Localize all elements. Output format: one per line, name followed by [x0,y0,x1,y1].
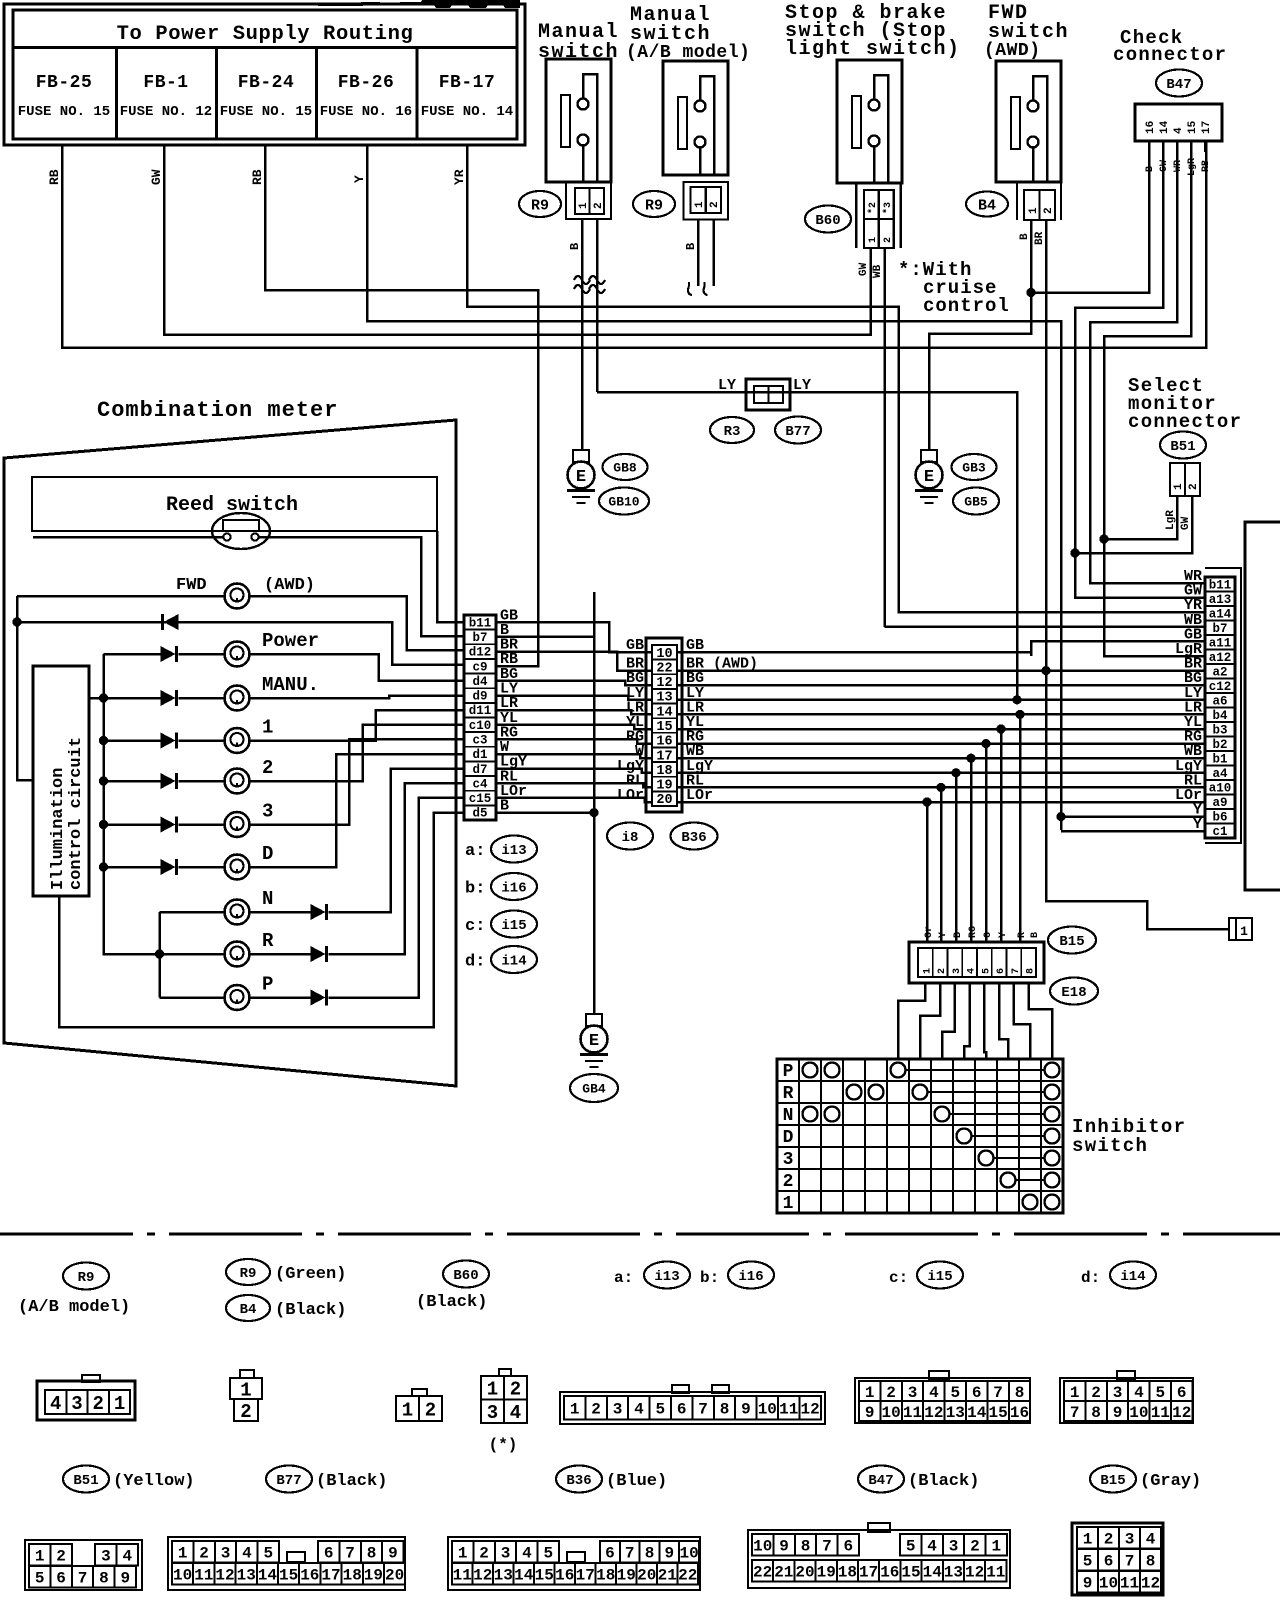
connector R9 AB pinout [396,1396,419,1421]
wire LgY row [677,772,1205,775]
svg-text:d:: d: [465,953,485,972]
wire manual switch pin1 to ground GB8 [581,219,584,450]
svg-text:17: 17 [656,749,672,764]
svg-text:4: 4 [1146,1531,1156,1549]
wire tap RL to E18 [936,783,945,792]
svg-text:i8: i8 [622,830,639,846]
TCU bracket [1245,522,1280,890]
svg-text:18: 18 [838,1564,857,1582]
svg-text:WR: WR [1173,160,1184,172]
svg-text:6: 6 [1104,1553,1114,1571]
svg-text:2: 2 [886,1384,896,1402]
svg-text:2: 2 [591,1401,601,1419]
inhibitor common contact [1045,1195,1060,1210]
wire GB strip to B36 [496,622,652,652]
ground GB8 GB10 [573,450,589,462]
wire check WR [1090,141,1205,583]
svg-text:15: 15 [656,720,672,735]
svg-text:4: 4 [50,1393,61,1415]
svg-text:(Green): (Green) [275,1265,346,1284]
wire check LgR [1104,141,1205,656]
wire GB row [677,641,1205,652]
svg-text:a10: a10 [1209,781,1232,795]
svg-text:11: 11 [986,1564,1005,1582]
wire check RB tail [1204,141,1207,152]
svg-text:a11: a11 [1209,636,1232,650]
wire manual switch pin2 LY [596,219,599,392]
svg-text:19: 19 [364,1567,383,1585]
oval E18 [1050,978,1098,1005]
svg-text:11: 11 [903,1404,922,1422]
svg-text:i14: i14 [1120,1269,1145,1285]
wire tap LOr to E18 [922,797,931,806]
svg-text:12: 12 [1141,1575,1160,1593]
joint connector box [746,379,790,410]
svg-text:1: 1 [922,968,933,974]
wire Y row b6 [1061,815,1205,818]
svg-text:2: 2 [1104,1531,1114,1549]
svg-text:1: 1 [458,1545,468,1563]
wire tap RG to E18 [981,739,990,748]
inhibitor moving contact [979,1151,994,1166]
wire illumination feed [89,697,104,700]
svg-text:21: 21 [658,1567,677,1585]
diode R [311,946,326,962]
svg-text:N: N [262,888,273,910]
illumination control circuit [33,666,89,896]
svg-text:14: 14 [656,705,672,720]
wire RG row [677,742,1205,745]
svg-text:i14: i14 [501,954,526,970]
svg-text:switch: switch [1072,1135,1148,1157]
inhibitor switch grid [777,1059,1063,1213]
svg-text:GW: GW [149,169,164,185]
svg-text:20: 20 [385,1567,404,1585]
svg-text:2: 2 [937,968,948,974]
svg-text:5: 5 [1155,1384,1165,1402]
svg-text:B77: B77 [785,424,810,440]
svg-text:LY: LY [718,377,736,394]
svg-text:22: 22 [753,1564,772,1582]
svg-text:a9: a9 [1212,796,1227,810]
svg-text:R: R [262,930,274,952]
svg-text:21: 21 [774,1564,793,1582]
check connector B47 box [1135,104,1222,141]
connector B15 E18 [909,942,1044,983]
svg-text:1: 1 [694,201,706,208]
wire BR row [677,669,1205,672]
svg-text:1: 1 [578,202,590,209]
svg-text:7: 7 [625,1545,635,1563]
oval R9 [519,191,561,217]
svg-text:7: 7 [993,1384,1003,1402]
inhibitor common contact [1045,1063,1060,1078]
svg-text:1: 1 [1240,924,1248,939]
svg-text:2: 2 [1188,483,1200,490]
svg-text:light switch): light switch) [785,38,961,61]
svg-text:13: 13 [656,691,672,706]
svg-text:1: 1 [865,1384,875,1402]
oval B51 yellow [63,1466,109,1493]
svg-text:10: 10 [679,1545,698,1563]
svg-text:i15: i15 [927,1269,952,1285]
svg-text:3: 3 [1113,1384,1123,1402]
svg-text:a13: a13 [1209,593,1232,607]
oval i8 [607,823,653,850]
svg-text:FB-24: FB-24 [238,73,295,93]
oval B51 [1160,432,1206,459]
svg-text:RG: RG [968,926,979,938]
svg-text:B60: B60 [815,213,840,229]
svg-text:i15: i15 [501,918,526,934]
svg-text:(Black): (Black) [908,1472,979,1491]
oval B36 blue [556,1466,602,1493]
svg-text:FUSE NO. 12: FUSE NO. 12 [120,104,212,120]
svg-text:6: 6 [324,1545,334,1563]
inhibitor contact [803,1063,818,1078]
svg-text:i16: i16 [501,881,526,897]
wire GB tap to E18 [1030,641,1033,656]
wire W strip to B36 [496,754,652,758]
svg-text:b4: b4 [1212,709,1228,723]
svg-text:1: 1 [487,1379,498,1401]
svg-text:GB8: GB8 [613,461,637,476]
svg-text:1: 1 [1028,207,1040,214]
svg-text:GW: GW [1159,160,1170,172]
wire AWD diode row [17,596,32,780]
diode AWD [164,614,179,630]
oval B15 gray [1090,1466,1136,1493]
svg-text:connector: connector [1128,411,1242,433]
svg-text:5: 5 [906,1538,916,1556]
svg-text:FUSE NO. 14: FUSE NO. 14 [421,104,513,120]
oval R9 green [226,1259,270,1285]
connector B51 box [1170,463,1200,496]
oval R3 [710,417,754,443]
wire BR strip to B36 [496,652,652,671]
svg-text:MANU.: MANU. [262,674,319,696]
svg-text:4: 4 [242,1545,252,1563]
svg-text:E: E [576,468,586,487]
svg-text:c15: c15 [469,792,492,806]
wire FWD lamp [17,595,224,598]
svg-text:WB: WB [872,264,884,278]
svg-text:7: 7 [78,1570,88,1588]
svg-text:15: 15 [901,1564,920,1582]
connector B36 pinout 22 [448,1537,700,1590]
svg-text:10: 10 [753,1538,772,1556]
svg-text:12: 12 [1172,1404,1191,1422]
svg-text:LgR: LgR [1187,158,1198,176]
wire meter B row14 [496,811,594,814]
svg-text:a12: a12 [1209,651,1232,665]
inhibitor moving contact [935,1107,950,1122]
svg-text:*3: *3 [882,202,894,214]
svg-text:14: 14 [258,1567,278,1585]
svg-text:5: 5 [950,1384,960,1402]
svg-text:E: E [924,468,934,487]
svg-text:2: 2 [883,237,894,243]
svg-text:10: 10 [881,1404,900,1422]
svg-text:P: P [262,974,273,996]
wire RG strip to B36 [496,739,652,743]
svg-text:R9: R9 [240,1266,257,1282]
svg-text:13: 13 [946,1404,965,1422]
svg-text:(Yellow): (Yellow) [113,1472,195,1491]
svg-text:6: 6 [996,968,1007,974]
svg-text:c9: c9 [472,660,487,674]
svg-text:B: B [568,243,582,250]
svg-text:(A/B model): (A/B model) [18,1298,130,1317]
connector B36 strip [646,638,682,812]
svg-text:16: 16 [880,1564,899,1582]
svg-text:Y: Y [938,932,949,938]
svg-text:B4: B4 [240,1302,257,1318]
svg-text:3: 3 [1125,1531,1135,1549]
svg-text:4: 4 [510,1402,521,1424]
svg-text:4: 4 [927,1538,937,1556]
svg-text:b2: b2 [1212,738,1227,752]
svg-text:i13: i13 [501,843,526,859]
connector R9 manual switch [566,182,611,219]
svg-text:1: 1 [114,1393,125,1415]
svg-text:1: 1 [991,1538,1001,1556]
svg-text:12: 12 [473,1567,492,1585]
svg-text:RB: RB [1201,160,1212,172]
svg-text:GB: GB [626,637,644,654]
svg-text:11: 11 [779,1401,798,1419]
svg-text:8: 8 [1091,1404,1101,1422]
connector B4 [1016,183,1018,220]
svg-text:7: 7 [822,1538,832,1556]
connector B51 pinout [25,1540,142,1590]
svg-text:FUSE NO. 15: FUSE NO. 15 [18,104,110,120]
svg-text:4: 4 [967,968,978,974]
svg-text:B47: B47 [1166,77,1191,93]
wire reed box edge to strip [437,531,464,622]
svg-text:(AWD): (AWD) [264,576,315,595]
svg-text:B: B [1019,233,1031,240]
svg-text:Or: Or [924,926,935,938]
connector B77 pinout 12 [560,1392,825,1424]
svg-text:10: 10 [758,1401,777,1419]
ground GB3 GB5 [921,450,937,462]
connector B60 pinout [481,1376,504,1400]
svg-text:11: 11 [194,1567,213,1585]
svg-text:18: 18 [656,764,672,779]
svg-text:3: 3 [101,1548,111,1566]
wire FWD pin1 B to ground [929,220,1031,450]
wire E18 to inhibitor [964,983,970,1059]
svg-text:b7: b7 [472,631,487,645]
svg-text:2: 2 [56,1548,66,1566]
svg-text:LOr: LOr [617,787,644,804]
oval B47 black [858,1466,904,1493]
svg-text:16: 16 [1145,121,1157,134]
svg-text:c12: c12 [1209,680,1232,694]
svg-text:R: R [1017,932,1028,938]
wire E18 to inhibitor [942,983,955,1059]
svg-text:9: 9 [388,1545,398,1563]
svg-text:8: 8 [99,1570,109,1588]
svg-text:9: 9 [865,1404,875,1422]
svg-text:2: 2 [425,1399,436,1421]
svg-text:17: 17 [859,1564,878,1582]
svg-text:Power: Power [262,630,319,652]
inhibitor contact [869,1085,884,1100]
svg-text:8: 8 [1015,1384,1025,1402]
svg-text:4: 4 [122,1548,132,1566]
diode P [311,990,326,1006]
svg-text:GB4: GB4 [582,1082,606,1097]
svg-text:3: 3 [949,1538,959,1556]
diode N [311,904,326,920]
svg-text:b:: b: [700,1269,719,1287]
wire Y from FB-26 [367,145,1061,830]
svg-text:22: 22 [678,1567,697,1585]
svg-text:i13: i13 [654,1269,679,1285]
svg-text:B: B [1030,932,1041,938]
svg-text:7: 7 [698,1401,708,1419]
svg-text:9: 9 [741,1401,751,1419]
svg-text:B: B [953,932,964,938]
wire A/B pin2 cut [712,220,715,287]
svg-text:i16: i16 [738,1269,763,1285]
svg-text:7: 7 [345,1545,355,1563]
oval R9 AB model [63,1263,109,1290]
oval B60 black [443,1261,489,1288]
wire BG row [677,684,1205,687]
svg-text:5: 5 [1083,1553,1093,1571]
svg-text:6: 6 [1177,1384,1187,1402]
svg-text:1: 1 [1083,1531,1093,1549]
wire BG strip to B36 [496,681,652,685]
svg-text:14: 14 [1159,120,1171,134]
svg-text:c3: c3 [472,733,487,747]
svg-text:(Black): (Black) [316,1472,387,1491]
svg-text:15: 15 [1187,120,1199,134]
svg-text:FB-1: FB-1 [143,73,188,93]
connector B60 [855,183,857,248]
svg-text:GW: GW [858,262,870,276]
oval B60 [805,206,851,233]
svg-text:B60: B60 [453,1268,478,1284]
wire E18 to inhibitor [999,983,1008,1059]
inhibitor moving contact [957,1129,972,1144]
svg-text:4: 4 [1134,1384,1144,1402]
svg-text:6: 6 [677,1401,687,1419]
svg-text:16: 16 [555,1567,574,1585]
svg-text:1: 1 [1173,483,1185,490]
svg-text:3: 3 [221,1545,231,1563]
svg-text:1: 1 [178,1545,188,1563]
svg-text:8: 8 [1146,1553,1156,1571]
svg-text:Y: Y [1193,816,1202,833]
reed switch box [32,477,437,531]
svg-text:B51: B51 [1170,439,1195,455]
wire GW from FB-1 [164,145,871,335]
svg-text:11: 11 [453,1567,472,1585]
wire W row [677,757,1205,760]
inhibitor moving contact [1001,1173,1016,1188]
wire E18 to inhibitor [898,983,925,1059]
svg-text:R9: R9 [78,1270,95,1286]
wire LR strip to B36 [496,710,652,714]
connector B47 pinout 22 reversed [748,1530,1010,1588]
svg-text:P: P [783,1062,794,1082]
svg-text:7: 7 [1125,1553,1135,1571]
wire YR from FB-17 [467,145,1205,612]
svg-text:13: 13 [494,1567,513,1585]
svg-text:(Black): (Black) [416,1293,487,1312]
wire RB from FB-25 [62,141,1206,348]
wire LR row [677,713,1205,716]
svg-text:b3: b3 [1212,723,1227,737]
svg-text:LY: LY [793,377,811,394]
svg-text:a:: a: [614,1269,633,1287]
svg-text:d7: d7 [472,763,487,777]
connector TCU strip [1205,577,1235,838]
svg-text:(Blue): (Blue) [606,1472,667,1491]
svg-text:2: 2 [262,757,273,779]
svg-text:YR: YR [452,169,467,185]
svg-text:(Black): (Black) [275,1301,346,1320]
svg-text:c4: c4 [472,777,488,791]
svg-text:2: 2 [783,1172,794,1192]
wire E18 to inhibitor [984,983,986,1059]
svg-text:14: 14 [923,1564,943,1582]
inhibitor moving contact [913,1085,928,1100]
wire tap LgY to E18 [951,768,960,777]
inhibitor common contact [1045,1085,1060,1100]
svg-text:10: 10 [656,647,672,662]
svg-text:20: 20 [656,793,672,808]
svg-text:8: 8 [720,1401,730,1419]
svg-text:4: 4 [1173,127,1185,134]
wire FWD pin2 BR [1046,220,1229,929]
wire B51 GW [1075,496,1192,553]
svg-text:FWD: FWD [176,576,207,595]
connector R9 A/B model [684,182,729,220]
connector B15 pinout 12 [1072,1523,1163,1595]
svg-text:FB-25: FB-25 [36,73,93,93]
svg-text:5: 5 [981,968,992,974]
svg-text:GW: GW [1180,516,1192,530]
svg-text:13: 13 [944,1564,963,1582]
svg-text:switch: switch [538,41,619,64]
svg-text:E: E [589,1032,599,1051]
svg-text:1: 1 [570,1401,580,1419]
separator dashed line [0,1233,1280,1236]
svg-text:(AWD): (AWD) [984,41,1041,61]
svg-text:1: 1 [402,1399,413,1421]
svg-text:8: 8 [367,1545,377,1563]
svg-text:12: 12 [924,1404,943,1422]
svg-text:2: 2 [240,1401,251,1423]
svg-text:D: D [262,843,273,865]
svg-text:12: 12 [656,676,672,691]
svg-text:FUSE NO. 16: FUSE NO. 16 [320,104,412,120]
connector B77 pinout 20 [168,1537,405,1590]
svg-text:5: 5 [543,1545,553,1563]
svg-text:B51: B51 [73,1473,98,1489]
oval B47 [1156,70,1202,97]
inhibitor contact [825,1107,840,1122]
svg-text:B36: B36 [566,1473,591,1489]
svg-text:GB3: GB3 [962,461,986,476]
connector B47 pinout 16 [855,1378,1030,1423]
connector pinout 12 two-row [1060,1378,1193,1423]
